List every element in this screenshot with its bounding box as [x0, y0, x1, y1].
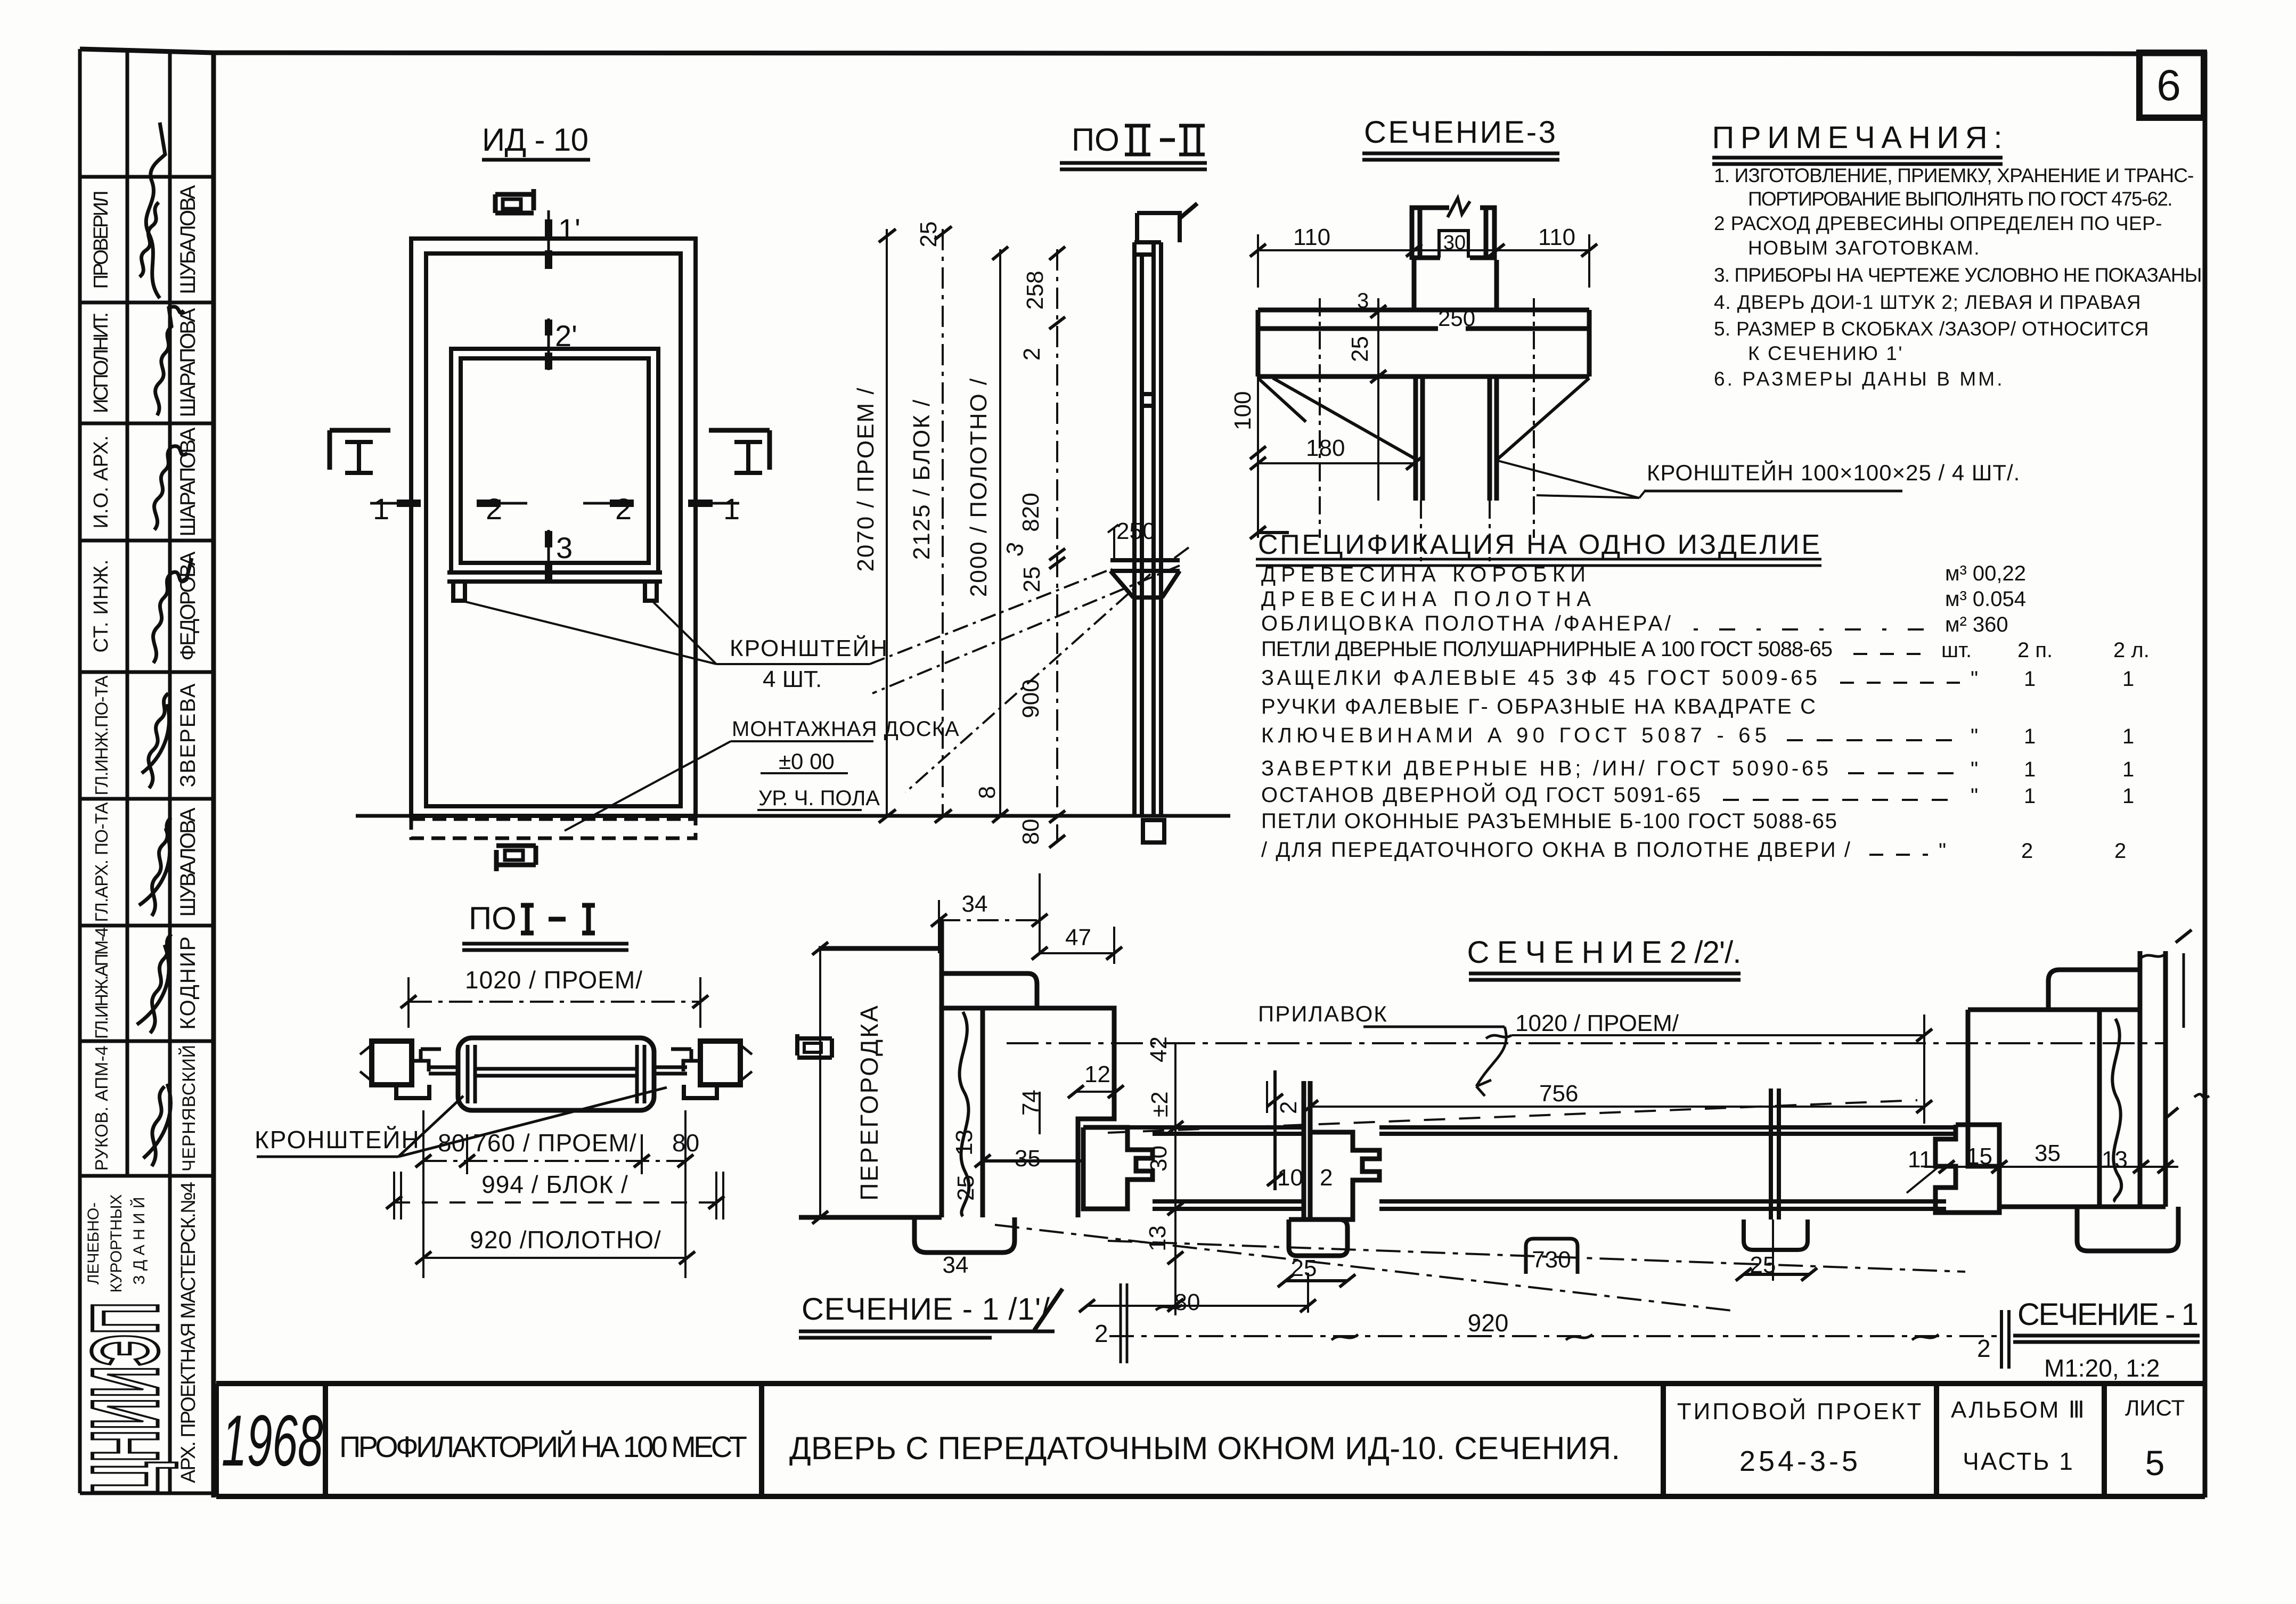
svg-text:М1:20, 1:2: М1:20, 1:2 — [2044, 1354, 2160, 1382]
svg-text:ГЛ.ИНЖ.АПМ-4: ГЛ.ИНЖ.АПМ-4 — [92, 927, 111, 1039]
svg-text:2: 2 — [1276, 1101, 1302, 1114]
svg-text:42: 42 — [1146, 1036, 1172, 1062]
svg-text:РУЧКИ ФАЛЕВЫЕ Г- ОБРАЗНЫЕ Н: РУЧКИ ФАЛЕВЫЕ Г- ОБРАЗНЫЕ НА КВАДРАТЕ С — [1261, 695, 1816, 718]
svg-text:ИСПОЛНИТ.: ИСПОЛНИТ. — [90, 312, 112, 413]
svg-text:ЗВЕРЕВА: ЗВЕРЕВА — [176, 683, 200, 787]
svg-text:30: 30 — [1146, 1145, 1172, 1172]
svg-text:ЧАСТЬ 1: ЧАСТЬ 1 — [1963, 1447, 2074, 1475]
svg-text:258: 258 — [1022, 271, 1048, 309]
svg-text:35: 35 — [1015, 1145, 1041, 1172]
svg-text:ОБЛИЦОВКА ПОЛОТНА /ФАНЕРА/: ОБЛИЦОВКА ПОЛОТНА /ФАНЕРА/ — [1261, 612, 1671, 635]
svg-text:2: 2 — [1094, 1320, 1108, 1347]
svg-text:шт.: шт. — [1941, 639, 1972, 662]
svg-text:±2: ±2 — [1147, 1091, 1173, 1117]
svg-text:1. ИЗГОТОВЛЕНИЕ, ПРИЕМКУ, ХРА: 1. ИЗГОТОВЛЕНИЕ, ПРИЕМКУ, ХРАНЕНИЕ И ТРА… — [1714, 165, 2194, 186]
svg-text:994 / БЛОК /: 994 / БЛОК / — [481, 1171, 628, 1198]
svg-text:м² 360: м² 360 — [1945, 613, 2008, 636]
svg-text:КУРОРТНЫХ: КУРОРТНЫХ — [108, 1194, 125, 1293]
svg-text:ДРЕВЕСИНА ПОЛОТНА: ДРЕВЕСИНА ПОЛОТНА — [1261, 587, 1591, 611]
svg-text:2 РАСХОД ДРЕВЕСИНЫ ОПРЕДЕЛЕ: 2 РАСХОД ДРЕВЕСИНЫ ОПРЕДЕЛЕН ПО ЧЕР- — [1714, 212, 2162, 234]
svg-text:3: 3 — [556, 531, 573, 564]
svg-text:2 л.: 2 л. — [2113, 639, 2150, 662]
svg-text:ТИПОВОЙ ПРОЕКТ: ТИПОВОЙ ПРОЕКТ — [1677, 1397, 1923, 1425]
svg-text:РУКОВ. АПМ-4: РУКОВ. АПМ-4 — [92, 1046, 111, 1171]
svg-text:80: 80 — [438, 1129, 465, 1157]
svg-text:820: 820 — [1018, 493, 1044, 531]
svg-text:ЧЕРНЯВСКИЙ: ЧЕРНЯВСКИЙ — [179, 1045, 199, 1172]
svg-text:2125 / БЛОК /: 2125 / БЛОК / — [909, 399, 935, 560]
svg-text:25: 25 — [1347, 336, 1373, 362]
svg-text:6: 6 — [2156, 61, 2181, 110]
svg-text:СЕЧЕНИЕ - 1: СЕЧЕНИЕ - 1 — [2017, 1297, 2199, 1332]
svg-text:250: 250 — [1116, 518, 1155, 544]
svg-text:КРОНШТЕЙН: КРОНШТЕЙН — [255, 1126, 420, 1153]
svg-text:С Е Ч Е Н И Е - 3: С Е Ч Е Н И Е - 3 — [1364, 115, 1556, 150]
svg-text:1968: 1968 — [222, 1401, 323, 1482]
svg-text:ОСТАНОВ ДВЕРНОЙ ОД ГОСТ 5091: ОСТАНОВ ДВЕРНОЙ ОД ГОСТ 5091-65 — [1261, 782, 1701, 807]
svg-text:ПРИЛАВОК: ПРИЛАВОК — [1258, 1001, 1388, 1026]
svg-text:110: 110 — [1538, 224, 1575, 250]
svg-text:5: 5 — [2145, 1443, 2165, 1483]
svg-text:100: 100 — [1230, 391, 1256, 430]
svg-text:м³ 0.054: м³ 0.054 — [1945, 587, 2026, 611]
svg-text:±0 00: ±0 00 — [779, 749, 835, 774]
svg-text:2: 2 — [1320, 1165, 1333, 1191]
svg-text:2: 2 — [615, 492, 632, 526]
svg-text:НОВЫМ ЗАГОТОВКАМ.: НОВЫМ ЗАГОТОВКАМ. — [1748, 237, 1980, 259]
svg-text:": " — [1939, 839, 1946, 863]
svg-text:8: 8 — [974, 786, 1000, 799]
svg-text:47: 47 — [1065, 924, 1091, 951]
svg-text:74: 74 — [1018, 1090, 1044, 1116]
svg-text:": " — [1971, 667, 1978, 691]
svg-text:25: 25 — [1291, 1255, 1317, 1281]
svg-text:1: 1 — [723, 492, 740, 526]
svg-text:180: 180 — [1306, 435, 1345, 461]
svg-text:ПО: ПО — [1072, 122, 1120, 158]
svg-text:1020 / ПРОЕМ/: 1020 / ПРОЕМ/ — [1515, 1010, 1679, 1036]
svg-text:И.О. АРХ.: И.О. АРХ. — [90, 436, 112, 529]
svg-text:ПОРТИРОВАНИЕ ВЫПОЛНЯТЬ ПО ГОС: ПОРТИРОВАНИЕ ВЫПОЛНЯТЬ ПО ГОСТ 475-62. — [1748, 188, 2173, 210]
svg-text:2 п.: 2 п. — [2017, 639, 2053, 662]
svg-text:3: 3 — [1357, 289, 1369, 313]
svg-text:15: 15 — [1966, 1143, 1992, 1169]
svg-text:2': 2' — [555, 319, 577, 353]
svg-text:ПЕТЛИ ОКОННЫЕ РАЗЪЕМНЫЕ Б-100: ПЕТЛИ ОКОННЫЕ РАЗЪЕМНЫЕ Б-100 ГОСТ 5088-… — [1261, 809, 1837, 833]
svg-text:35: 35 — [2034, 1140, 2061, 1166]
svg-text:6. РАЗМЕРЫ ДАНЫ В ММ.: 6. РАЗМЕРЫ ДАНЫ В ММ. — [1714, 368, 2003, 390]
svg-text:250: 250 — [1438, 306, 1475, 331]
svg-text:2000 / ПОЛОТНО /: 2000 / ПОЛОТНО / — [966, 378, 992, 597]
svg-text:1020 / ПРОЕМ/: 1020 / ПРОЕМ/ — [465, 966, 643, 994]
svg-text:1: 1 — [2024, 667, 2036, 691]
svg-text:З Д А Н И Й: З Д А Н И Й — [130, 1197, 148, 1285]
svg-text:ШУВАЛОВА: ШУВАЛОВА — [176, 807, 200, 916]
svg-text:С Е Ч Е Н И Е 2 /2'/.: С Е Ч Е Н И Е 2 /2'/. — [1467, 935, 1742, 970]
svg-text:МОНТАЖНАЯ ДОСКА: МОНТАЖНАЯ ДОСКА — [732, 717, 960, 741]
svg-text:КРОНШТЕЙН 100×100×25 / 4 ШТ: КРОНШТЕЙН 100×100×25 / 4 ШТ/. — [1647, 460, 2020, 485]
svg-text:2: 2 — [1977, 1335, 1991, 1362]
svg-text:ШАРАПОВА: ШАРАПОВА — [176, 308, 200, 417]
svg-text:ПЕТЛИ ДВЕРНЫЕ ПОЛУШАРНИРНЫЕ А: ПЕТЛИ ДВЕРНЫЕ ПОЛУШАРНИРНЫЕ А 100 ГОСТ 5… — [1261, 637, 1833, 661]
svg-text:ГЛ.ИНЖ.ПО-ТА: ГЛ.ИНЖ.ПО-ТА — [92, 676, 111, 796]
svg-text:ИД - 10: ИД - 10 — [482, 122, 589, 158]
svg-text:СПЕЦИФИКАЦИЯ НА ОДНО ИЗДЕЛИ: СПЕЦИФИКАЦИЯ НА ОДНО ИЗДЕЛИЕ — [1258, 529, 1820, 560]
svg-text:4 ШТ.: 4 ШТ. — [763, 666, 822, 692]
svg-text:760 / ПРОЕМ/: 760 / ПРОЕМ/ — [473, 1129, 636, 1157]
svg-text:34: 34 — [943, 1252, 969, 1278]
svg-text:ЗАВЕРТКИ ДВЕРНЫЕ НВ; /ИН/: ЗАВЕРТКИ ДВЕРНЫЕ НВ; /ИН/ ГОСТ 5090-65 — [1261, 757, 1829, 780]
svg-text:920: 920 — [1468, 1309, 1509, 1337]
svg-text:СЕЧЕНИЕ - 1 /1'/: СЕЧЕНИЕ - 1 /1'/ — [802, 1292, 1050, 1327]
svg-text:25: 25 — [1750, 1252, 1776, 1278]
svg-text:13: 13 — [951, 1130, 977, 1156]
svg-text:25: 25 — [916, 222, 942, 248]
svg-text:80: 80 — [1018, 819, 1044, 845]
svg-text:1: 1 — [2122, 758, 2134, 781]
svg-text:2070 / ПРОЕМ /: 2070 / ПРОЕМ / — [853, 387, 879, 571]
svg-text:25: 25 — [953, 1175, 979, 1201]
svg-text:1: 1 — [2122, 784, 2134, 808]
svg-text:ЛИСТ: ЛИСТ — [2125, 1395, 2185, 1420]
svg-text:1: 1 — [2122, 725, 2134, 748]
svg-text:34: 34 — [962, 891, 988, 917]
svg-text:ГЛ.АРХ. ПО-ТА: ГЛ.АРХ. ПО-ТА — [92, 803, 111, 922]
svg-text:2: 2 — [2021, 839, 2033, 863]
svg-text:10: 10 — [1277, 1165, 1303, 1191]
svg-text:ШАРАПОВА: ШАРАПОВА — [176, 427, 200, 536]
svg-text:": " — [1971, 758, 1978, 781]
svg-text:ПЕРЕГОРОДКА: ПЕРЕГОРОДКА — [855, 1004, 883, 1200]
svg-text:КРОНШТЕЙН: КРОНШТЕЙН — [730, 634, 888, 661]
svg-text:2: 2 — [486, 492, 502, 526]
svg-text:254-3-5: 254-3-5 — [1739, 1445, 1861, 1477]
svg-text:13: 13 — [2102, 1147, 2128, 1173]
svg-text:ПРОВЕРИЛ: ПРОВЕРИЛ — [90, 191, 112, 289]
svg-text:12: 12 — [1084, 1061, 1110, 1087]
svg-text:ДВЕРЬ С ПЕРЕДАТОЧНЫМ ОКНОМ: ДВЕРЬ С ПЕРЕДАТОЧНЫМ ОКНОМ ИД-10. СЕЧЕНИ… — [789, 1430, 1620, 1466]
svg-text:": " — [1971, 784, 1978, 808]
svg-text:25: 25 — [1019, 567, 1045, 593]
svg-text:ШУБАЛОВА: ШУБАЛОВА — [176, 185, 200, 294]
svg-text:2: 2 — [2114, 839, 2126, 863]
svg-text:ДРЕВЕСИНА КОРОБКИ: ДРЕВЕСИНА КОРОБКИ — [1261, 563, 1586, 586]
svg-text:4. ДВЕРЬ ДОИ-1 ШТУК 2; ЛЕВАЯ: 4. ДВЕРЬ ДОИ-1 ШТУК 2; ЛЕВАЯ И ПРАВАЯ — [1714, 291, 2141, 313]
svg-text:АРХ. ПРОЕКТНАЯ МАСТЕРСК.№4: АРХ. ПРОЕКТНАЯ МАСТЕРСК.№4 — [177, 1182, 200, 1483]
svg-text:80: 80 — [1174, 1289, 1200, 1315]
svg-text:11: 11 — [1908, 1147, 1932, 1173]
svg-text:/ ДЛЯ ПЕРЕДАТОЧНОГО ОКНА В: / ДЛЯ ПЕРЕДАТОЧНОГО ОКНА В ПОЛОТНЕ ДВЕРИ… — [1261, 838, 1851, 862]
svg-text:": " — [1971, 725, 1978, 748]
svg-text:1: 1 — [373, 492, 389, 526]
svg-text:730: 730 — [1532, 1247, 1571, 1273]
svg-text:2: 2 — [1019, 348, 1045, 361]
svg-text:920 /ПОЛОТНО/: 920 /ПОЛОТНО/ — [470, 1226, 661, 1254]
svg-text:13: 13 — [1145, 1225, 1171, 1251]
svg-text:ЦНИИЭП: ЦНИИЭП — [72, 1302, 178, 1494]
svg-text:К СЕЧЕНИЮ 1': К СЕЧЕНИЮ 1' — [1748, 342, 1902, 364]
svg-text:1': 1' — [558, 212, 581, 246]
svg-text:ЛЕЧЕБНО-: ЛЕЧЕБНО- — [85, 1202, 102, 1284]
svg-text:1: 1 — [2024, 725, 2036, 748]
svg-text:1: 1 — [2024, 784, 2036, 808]
svg-text:110: 110 — [1293, 224, 1330, 250]
svg-text:УР. Ч. ПОЛА: УР. Ч. ПОЛА — [758, 787, 880, 810]
svg-text:900: 900 — [1018, 679, 1044, 718]
svg-text:5. РАЗМЕР В СКОБКАХ /ЗАЗОР/: 5. РАЗМЕР В СКОБКАХ /ЗАЗОР/ ОТНОСИТСЯ — [1714, 318, 2149, 340]
svg-text:3. ПРИБОРЫ НА ЧЕРТЕЖЕ УСЛОВНО: 3. ПРИБОРЫ НА ЧЕРТЕЖЕ УСЛОВНО НЕ ПОКАЗАН… — [1714, 264, 2202, 286]
svg-text:756: 756 — [1539, 1081, 1578, 1107]
svg-text:1: 1 — [2024, 758, 2036, 781]
svg-text:АЛЬБОМ Ⅲ: АЛЬБОМ Ⅲ — [1951, 1397, 2086, 1423]
svg-text:ПО: ПО — [469, 901, 517, 936]
svg-text:П Р И М Е Ч А Н И Я :: П Р И М Е Ч А Н И Я : — [1712, 120, 2003, 155]
svg-text:30: 30 — [1443, 232, 1466, 254]
svg-text:м³ 00,22: м³ 00,22 — [1945, 562, 2026, 585]
svg-text:КОДНИР: КОДНИР — [176, 937, 200, 1030]
svg-text:ПРОФИЛАКТОРИЙ НА 100 МЕСТ: ПРОФИЛАКТОРИЙ НА 100 МЕСТ — [339, 1430, 747, 1463]
svg-text:1: 1 — [2122, 667, 2134, 691]
